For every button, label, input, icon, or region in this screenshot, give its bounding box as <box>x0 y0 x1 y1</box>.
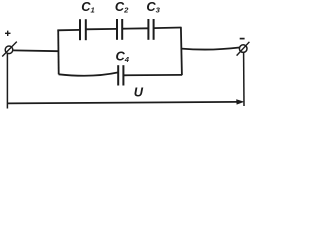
extension line right <box>243 53 245 106</box>
wire top rail seg4 <box>154 27 182 30</box>
capacitor C2 <box>117 19 122 40</box>
dimension arrow U <box>7 99 244 104</box>
svg-text:C2: C2 <box>115 0 129 15</box>
label − <box>240 38 245 40</box>
terminal T1 (+) <box>2 42 17 57</box>
svg-text:C3: C3 <box>146 0 160 15</box>
wire top rail seg3 <box>122 27 148 29</box>
node A : left junction vertical <box>57 30 60 75</box>
wire output <box>181 48 239 50</box>
label + <box>5 31 11 36</box>
svg-text:C1: C1 <box>81 0 94 15</box>
svg-text:U: U <box>134 85 144 100</box>
wire bottom rail seg2 <box>123 74 182 76</box>
node B : right junction vertical <box>181 27 182 75</box>
extension line left <box>6 54 8 109</box>
capacitor C3 <box>148 19 153 40</box>
wire top rail seg2 <box>86 28 117 30</box>
wire input <box>13 49 58 52</box>
wire bottom rail seg1 <box>59 72 119 75</box>
svg-text:C4: C4 <box>116 48 130 64</box>
capacitor C4 <box>118 65 123 85</box>
capacitor C1 <box>80 19 86 40</box>
terminal T2 (−) <box>237 42 250 56</box>
wire top rail seg1 <box>57 29 80 31</box>
